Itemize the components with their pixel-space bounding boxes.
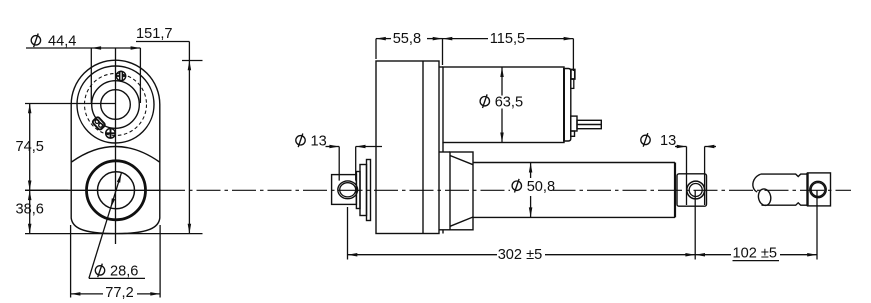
label diameter 63,5 — [480, 94, 523, 110]
lower ring thick — [87, 161, 146, 220]
extension line motor left — [442, 39, 444, 65]
terminal block — [571, 116, 577, 131]
left view vertical centerline — [115, 48, 117, 244]
302 +-5 — [348, 254, 498, 256]
circle phi44.4 r23.8 — [92, 81, 140, 129]
left view horizontal centerline upper boss — [25, 103, 116, 105]
151,7 — [136, 41, 189, 43]
svg-text:77,2: 77,2 — [105, 285, 133, 301]
svg-text:74,5: 74,5 — [16, 139, 44, 155]
left view outline — [71, 60, 160, 233]
motor — [443, 67, 564, 143]
hole r14.8 — [101, 90, 131, 120]
main horizontal centerline — [25, 189, 161, 191]
svg-text:102 ±5: 102 ±5 — [733, 246, 778, 262]
clevis — [806, 173, 808, 206]
motor plate connect — [439, 66, 443, 68]
phi 50,8 — [530, 163, 532, 179]
rear eye block — [332, 175, 357, 205]
extension line mid (lower bore centerline) — [25, 189, 68, 191]
102 +-5 — [695, 254, 731, 256]
motor cap — [564, 69, 571, 142]
washers — [356, 172, 360, 209]
svg-text:151,7: 151,7 — [136, 26, 173, 42]
label diameter 13 front — [641, 133, 676, 149]
bolt circle dashed r31 — [85, 74, 147, 136]
svg-text:50,8: 50,8 — [527, 179, 555, 195]
lower inner circle — [98, 172, 135, 209]
phi 28,6 leader — [89, 173, 122, 278]
bottom step — [571, 131, 575, 136]
label diameter 44,4 — [31, 33, 76, 49]
collar — [450, 152, 473, 230]
label diameter 50,8 — [510, 179, 555, 195]
dimension 38,6 vertical line and arrows — [29, 190, 31, 233]
screw bottom — [105, 128, 115, 138]
tube — [473, 162, 675, 164]
dimension 74,5 vertical line and arrows — [29, 104, 31, 191]
phi 44,4 — [26, 47, 140, 49]
svg-text:63,5: 63,5 — [495, 94, 523, 110]
svg-text:302 ±5: 302 ±5 — [498, 247, 543, 263]
label diameter 28,6 — [95, 264, 138, 280]
svg-text:55,8: 55,8 — [393, 31, 421, 47]
77,2 — [70, 225, 72, 298]
rear eye circles — [338, 181, 358, 199]
label diameter 13 rear — [296, 133, 327, 149]
svg-text:115,5: 115,5 — [490, 31, 525, 47]
gearbox — [376, 61, 439, 234]
collar ledges — [439, 151, 450, 153]
svg-text:13: 13 — [660, 133, 676, 149]
plate edge above collar — [442, 143, 444, 153]
extension line bottom of bracket — [25, 233, 203, 235]
svg-text:28,6: 28,6 — [110, 264, 138, 280]
hexagon top arc — [72, 147, 160, 163]
dimension 55,8 line and arrows — [376, 38, 391, 40]
broken rod stub — [753, 174, 761, 192]
boss circle r38.5 — [77, 66, 154, 143]
rod head — [677, 174, 707, 206]
svg-text:38,6: 38,6 — [16, 201, 44, 217]
plate edge below collar — [442, 230, 444, 234]
screw top — [116, 71, 126, 80]
phi 13 rear — [326, 146, 340, 148]
extension line motor right — [572, 39, 574, 71]
svg-text:13: 13 — [311, 133, 327, 149]
svg-text:44,4: 44,4 — [48, 33, 76, 49]
dimension 115,5 line and arrows — [443, 38, 489, 40]
phi 63,5 — [501, 67, 503, 96]
motor top tab — [571, 70, 575, 80]
connector block — [92, 116, 106, 130]
pins — [577, 120, 601, 128]
extension line gearbox left — [375, 39, 377, 59]
phi 13 front — [675, 146, 687, 148]
